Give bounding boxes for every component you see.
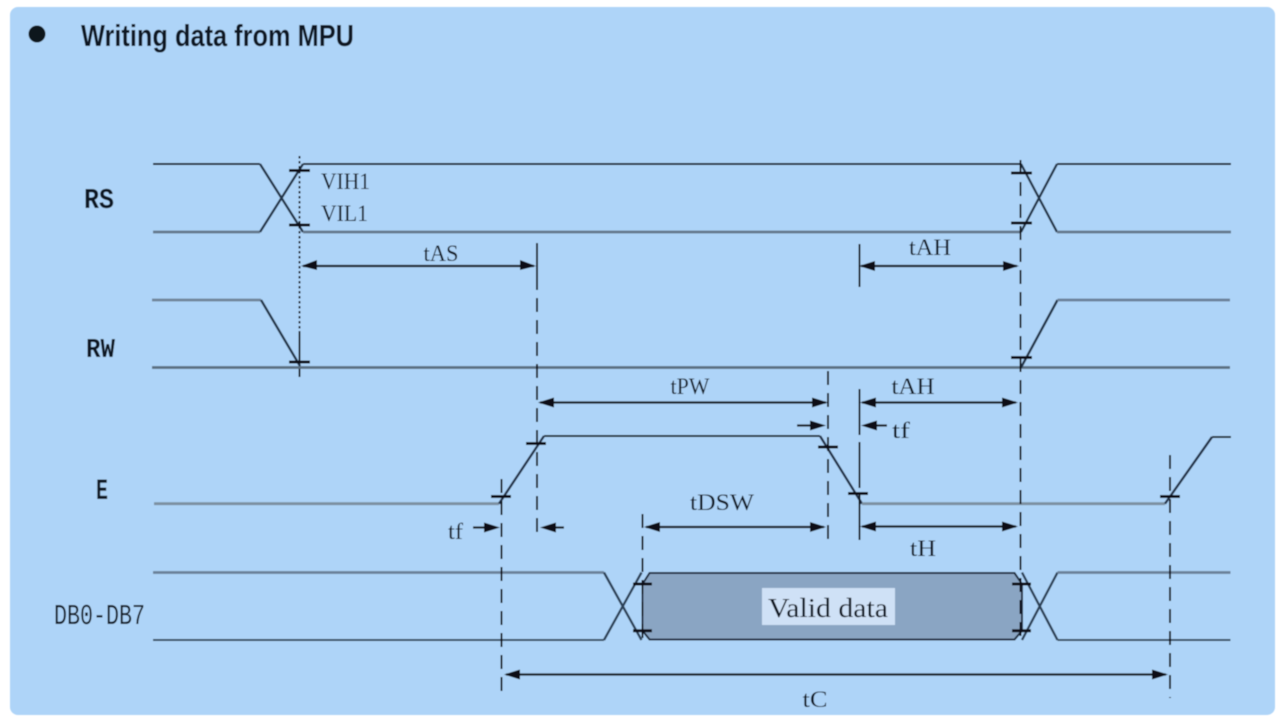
VIL1 tick mark left [289, 224, 310, 227]
VIL1 tick mark right [1011, 222, 1032, 225]
RS low rail middle [303, 231, 1021, 234]
RW rising edge right [1021, 300, 1058, 368]
tf (E falling) arrow pointing left [874, 424, 887, 426]
tPW dimension arrow [540, 401, 826, 403]
hexagon left bottom tick [633, 629, 652, 632]
E rise top tick [526, 442, 546, 445]
hexagon right bottom tick [1012, 629, 1031, 632]
RS high rail middle [303, 163, 1021, 165]
dashed reference line tDSW left (x=642.5) [642, 514, 644, 640]
E high rail [544, 435, 820, 437]
svg-text:RS: RS [84, 184, 114, 217]
RS high rail right [1057, 163, 1231, 165]
svg-text:tAH: tAH [892, 374, 935, 399]
tAH (bottom) dimension arrow [862, 401, 1016, 403]
svg-text:VIH1: VIH1 [321, 169, 370, 194]
svg-text:VIL1: VIL1 [321, 201, 368, 226]
RS high rail left [153, 163, 260, 165]
tH dimension arrow [862, 525, 1016, 527]
VIH1 tick mark left [289, 169, 310, 172]
RS crossover X left [260, 164, 303, 232]
svg-text:tH: tH [910, 536, 936, 561]
E fall bottom tick [848, 492, 868, 495]
hexagon right top tick [1012, 583, 1031, 586]
hexagon left top tick [633, 583, 652, 586]
solid vertical at RW fall tick [299, 331, 301, 377]
svg-text:tDSW: tDSW [690, 490, 754, 515]
svg-text:DB0-DB7: DB0-DB7 [54, 600, 145, 633]
svg-text:E: E [96, 475, 108, 509]
dashed reference line tC left (x=501.5) [501, 479, 503, 698]
DB low rail right [1058, 639, 1231, 641]
DB high rail left [153, 571, 604, 574]
RW fall tick mark [289, 361, 310, 364]
tDSW dimension arrow [646, 526, 824, 528]
svg-text:tAS: tAS [424, 241, 459, 266]
dashed reference line tC right (x=1170) [1169, 455, 1171, 698]
RS crossover X right [1021, 164, 1057, 232]
E far right rise tick [1160, 495, 1180, 498]
svg-text:RW: RW [86, 336, 116, 366]
tf (E falling) arrow pointing right [797, 424, 812, 426]
RW falling edge [261, 300, 300, 366]
tAH (top) tick at left [859, 244, 861, 287]
tf (E rising) arrow pointing right [473, 526, 486, 528]
svg-text:tAH: tAH [909, 235, 951, 260]
E fall top tick [818, 446, 838, 449]
E low rail left [154, 502, 499, 505]
E falling edge [820, 436, 862, 504]
VIH1 tick mark right [1011, 172, 1032, 175]
DB high rail right [1058, 571, 1231, 574]
bullet [29, 26, 46, 43]
E rise bottom tick [491, 495, 511, 498]
DB crossover X right [1022, 573, 1058, 641]
DB low rail left [153, 639, 604, 641]
dashed reference line tAH left lower (x=859.5) [859, 389, 861, 540]
svg-text:tf: tf [448, 519, 463, 544]
dashed reference line RS/RW right transition (x=1020.5) [1020, 160, 1022, 640]
RW low rail [152, 366, 1230, 369]
RS low rail left [153, 231, 260, 234]
E rising edge [499, 436, 544, 504]
svg-text:tf: tf [892, 418, 910, 443]
RW high rail right [1058, 299, 1231, 302]
tAH (top) dimension arrow [861, 265, 1017, 267]
RW high rail left [152, 299, 261, 302]
svg-text:Valid data: Valid data [768, 593, 888, 623]
dashed reference line tPW right (x=828) [827, 371, 829, 540]
RS low rail right [1057, 231, 1231, 234]
E high rail far right [1212, 436, 1231, 438]
dotted reference line at RS transition [299, 156, 301, 331]
E low rail right [862, 502, 1165, 505]
tAS dimension arrow [303, 265, 534, 267]
dashed reference line tAS right / tPW left (x=537) [536, 243, 538, 290]
E rising edge far right [1165, 437, 1212, 504]
svg-text:tC: tC [803, 687, 828, 712]
tC dimension arrow [506, 673, 1166, 675]
tf (E rising) arrow pointing left [553, 526, 564, 528]
valid data label box [762, 588, 895, 625]
RW rise tick mark [1011, 356, 1032, 359]
DB crossover X left [604, 573, 642, 641]
valid data hexagon [643, 573, 1023, 640]
svg-text:tPW: tPW [671, 374, 710, 399]
svg-text:Writing data from MPU: Writing data from MPU [81, 18, 354, 53]
